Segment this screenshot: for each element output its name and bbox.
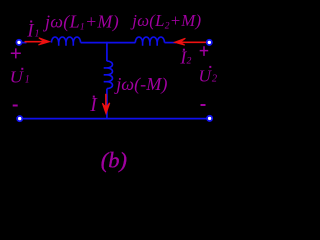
current arrow I2 [175,38,207,45]
svg-text:(b): (b) [101,147,127,172]
current arrow I (middle) [102,94,109,114]
svg-text:2: 2 [212,73,218,85]
wire top-right segment [165,42,177,44]
inductor M (jω(-M)) [104,61,113,89]
plus sign left port [11,48,21,58]
terminal left bottom [17,116,22,121]
minus sign left port [13,105,18,107]
label I (middle current) [89,95,98,116]
wire middle branch lower [106,89,108,119]
inductor L1 (jω(L1+M)) [51,37,80,46]
wire bottom [22,118,207,120]
plus sign right port [200,46,209,56]
terminal right bottom [207,116,212,121]
label U1 (voltage) [10,68,30,87]
inductor L2 (jω(L2+M)) [135,37,164,46]
terminal left top [16,40,21,45]
current arrow I1 [25,38,50,45]
wire top-middle segment [81,42,136,44]
minus sign right port [201,104,206,106]
svg-text:U: U [10,68,25,87]
wire top-left segment [21,42,27,44]
label U2 (voltage) [198,66,217,86]
svg-text:jω(-M): jω(-M) [114,74,167,95]
svg-text:1: 1 [25,74,30,86]
svg-text:2: 2 [187,56,192,67]
label I1 (current) [26,20,39,41]
svg-text:U: U [198,67,212,86]
wire middle branch upper [106,42,108,61]
label I2 (current) [179,48,191,68]
svg-text:1: 1 [35,29,40,40]
terminal right top [207,40,212,45]
